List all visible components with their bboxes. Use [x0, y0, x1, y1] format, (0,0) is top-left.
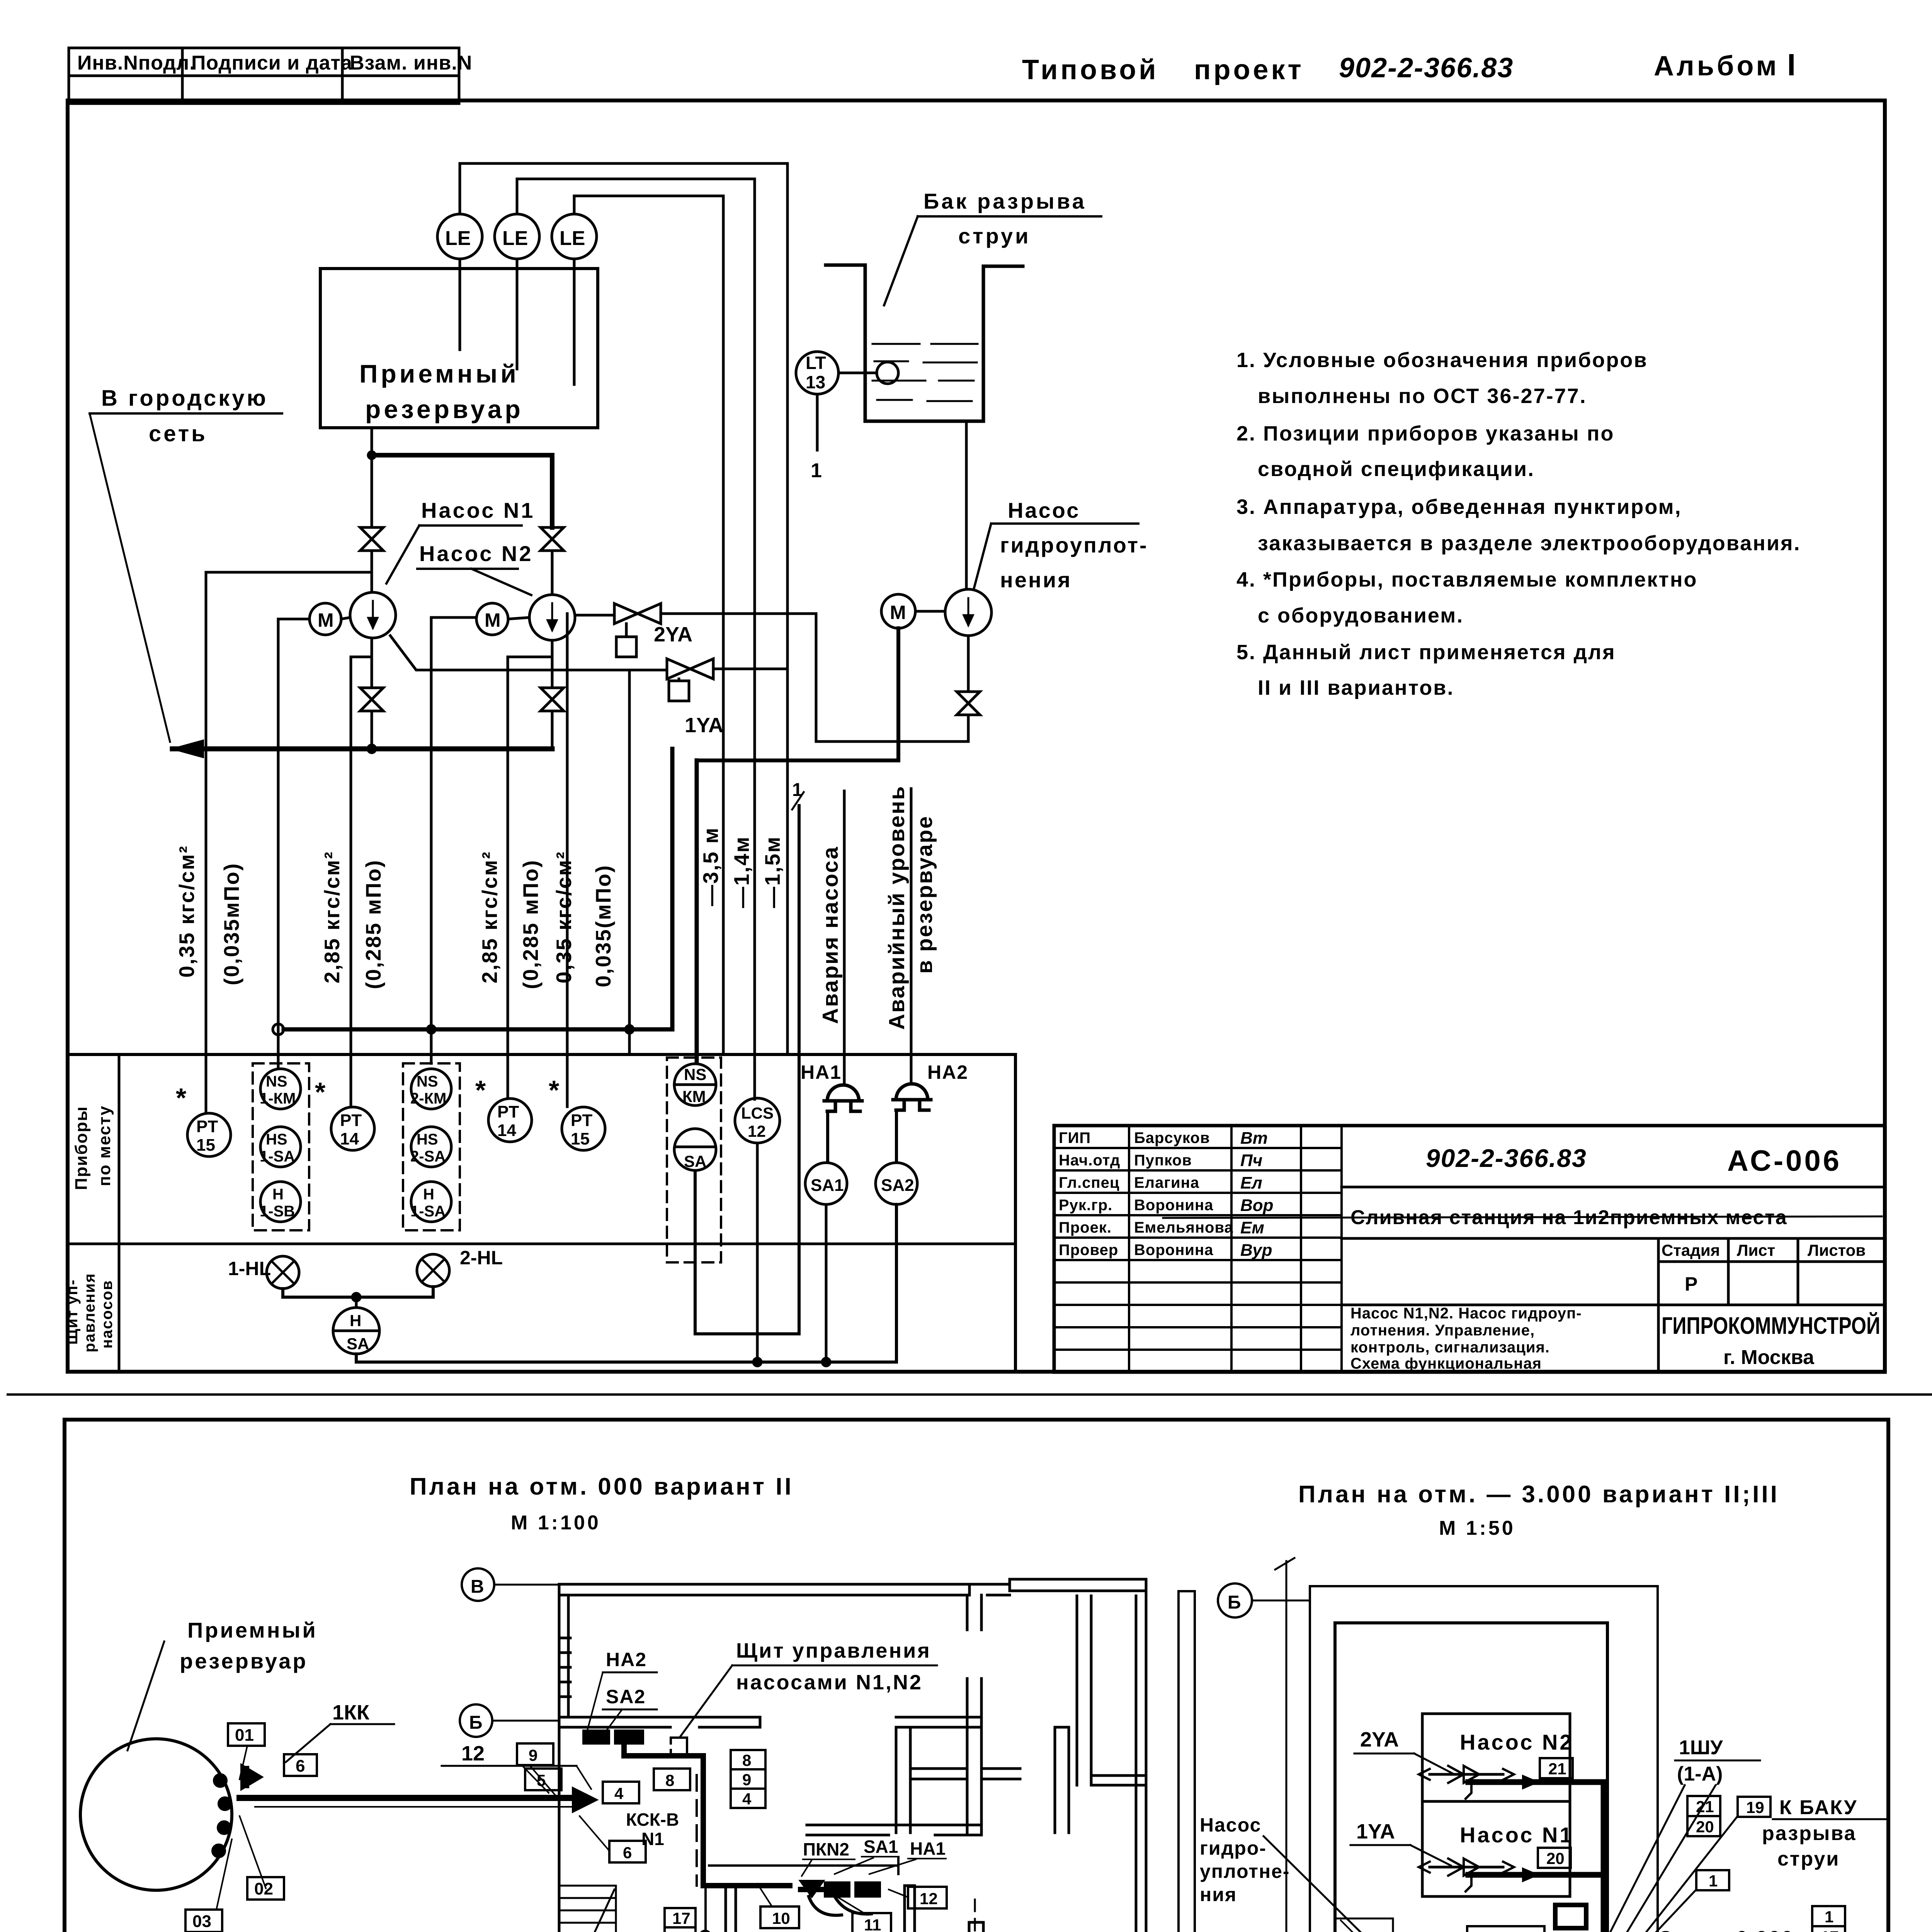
svg-text:по месту: по месту [95, 1105, 114, 1186]
svg-text:Подписи и дата: Подписи и дата [191, 52, 352, 74]
svg-text:*: * [549, 1075, 560, 1105]
dashed drop line [696, 1775, 698, 1886]
pump labels [419, 498, 535, 566]
svg-text:Взам. инв.N: Взам. инв.N [350, 52, 472, 74]
svg-text:LE: LE [502, 227, 528, 250]
svg-text:4. *Приборы, поставляемые ко: 4. *Приборы, поставляемые комплектно [1236, 568, 1697, 591]
svg-text:2,85 кгс/см²: 2,85 кгс/см² [478, 851, 502, 984]
svg-text:Н: Н [350, 1311, 361, 1330]
svg-text:(1-А): (1-А) [1677, 1763, 1723, 1785]
num box 20 [1538, 1848, 1571, 1868]
svg-text:План на отм. 000 вариант II: План на отм. 000 вариант II [410, 1473, 794, 1500]
svg-text:Щит управления: Щит управления [736, 1639, 931, 1662]
title block left grid [1054, 1126, 1342, 1372]
drop junction dot [700, 1931, 711, 1932]
svg-text:КСК-В: КСК-В [626, 1810, 679, 1830]
control panel black bars [583, 1731, 609, 1743]
hydro pump motor M [881, 594, 915, 628]
sheets divider line [8, 1393, 1932, 1396]
instrument SA [674, 1129, 716, 1170]
svg-text:2-КМ: 2-КМ [410, 1090, 446, 1107]
svg-text:Барсуков: Барсуков [1134, 1129, 1210, 1146]
svg-text:SA2: SA2 [881, 1176, 914, 1195]
svg-text:проект: проект [1194, 54, 1304, 85]
motor M1 [310, 603, 341, 635]
num box 8 [654, 1769, 690, 1790]
svg-text:ГИП: ГИП [1059, 1129, 1091, 1146]
drawing description [1350, 1305, 1582, 1372]
signal tap column x1116 [431, 617, 476, 1063]
svg-text:2-HL: 2-HL [460, 1247, 503, 1269]
svg-text:20: 20 [1546, 1849, 1565, 1867]
panel label [736, 1639, 931, 1694]
svg-text:Провер: Провер [1059, 1242, 1118, 1259]
level electrode LE1 [437, 214, 482, 259]
axis circle B -3000 [1218, 1583, 1252, 1617]
svg-text:21: 21 [1548, 1760, 1566, 1778]
svg-text:II и III вариантов.: II и III вариантов. [1258, 676, 1454, 699]
discharge pipes below pumps [371, 638, 373, 688]
sheet 2 frame [65, 1420, 1888, 1932]
svg-text:I: I [1787, 48, 1798, 82]
svg-text:НА2: НА2 [606, 1649, 647, 1670]
svg-text:12: 12 [461, 1742, 485, 1765]
instrument PT14 [331, 1107, 374, 1150]
svg-text:Ел: Ел [1240, 1173, 1262, 1192]
svg-text:Листов: Листов [1808, 1241, 1866, 1259]
svg-text:1: 1 [811, 459, 822, 482]
svg-text:Насос N1: Насос N1 [1460, 1823, 1574, 1847]
hydro pump label [1000, 498, 1148, 592]
discharge valve pump2 [541, 688, 564, 711]
wire LCS12 column [756, 1143, 759, 1362]
signatures [1240, 1129, 1274, 1260]
svg-text:Вур: Вур [1240, 1241, 1272, 1260]
svg-text:с оборудованием.: с оборудованием. [1258, 604, 1464, 627]
svg-text:4: 4 [614, 1784, 624, 1803]
svg-text:г. Москва: г. Москва [1723, 1346, 1815, 1369]
svg-text:(0,285 мПо): (0,285 мПо) [361, 859, 385, 989]
feeder valve into reservoir [241, 1765, 262, 1789]
svg-text:2,85 кгс/см²: 2,85 кгс/см² [320, 851, 344, 984]
level transmitter LT13 [796, 352, 838, 394]
svg-text:1: 1 [1709, 1872, 1718, 1890]
num stack 8 9 4 [731, 1750, 765, 1769]
svg-text:Авария насоса: Авария насоса [818, 846, 843, 1024]
svg-text:17: 17 [672, 1909, 690, 1927]
svg-text:Ем: Ем [1240, 1218, 1264, 1237]
receiving reservoir vessel [320, 269, 598, 428]
alarm line HA2 [910, 789, 913, 1084]
signal tap column x1314 [508, 657, 552, 1098]
svg-text:SA: SA [347, 1335, 369, 1353]
HA2 SA2 labels [606, 1649, 647, 1708]
level electrode LE2 [495, 214, 539, 259]
instrument PT15 second [562, 1107, 605, 1150]
svg-text:*: * [315, 1077, 326, 1107]
svg-text:1YA: 1YA [1356, 1820, 1395, 1843]
svg-text:*: * [475, 1075, 486, 1105]
svg-text:10: 10 [772, 1909, 790, 1927]
svg-text:2-SA: 2-SA [410, 1148, 446, 1165]
motor M wire down [697, 628, 898, 760]
svg-text:11: 11 [864, 1916, 881, 1932]
svg-text:2YA: 2YA [654, 623, 692, 646]
instrument H 1-SA [411, 1182, 451, 1222]
switch H/SA [333, 1308, 379, 1354]
num box 10 [760, 1906, 799, 1928]
reservoir label [180, 1618, 318, 1673]
KCK-B N1 label [626, 1810, 679, 1849]
fitting bars SA1 HA1 [825, 1883, 849, 1896]
num box 11 [852, 1913, 891, 1932]
svg-text:1: 1 [676, 1929, 685, 1932]
discharge valve pump1 [360, 688, 383, 711]
svg-text:9: 9 [529, 1746, 537, 1764]
top-right parapet [969, 1584, 1010, 1595]
wire from H/SA to SA columns [356, 1204, 896, 1362]
svg-text:В: В [471, 1577, 484, 1597]
svg-text:Инв.Nподл.: Инв.Nподл. [77, 52, 196, 74]
svg-text:НА1: НА1 [801, 1061, 842, 1083]
svg-text:15: 15 [196, 1136, 215, 1155]
svg-text:Рук.гр.: Рук.гр. [1059, 1197, 1112, 1214]
svg-text:М: М [485, 609, 501, 631]
svg-text:ГИПРОКОММУНСТРОЙ: ГИПРОКОММУНСТРОЙ [1662, 1312, 1880, 1339]
lamp 1-HL [267, 1256, 299, 1289]
building II outer walls [559, 1579, 1146, 1932]
asterisks [176, 1075, 560, 1113]
alarm line HA1 [843, 791, 846, 1085]
svg-text:Насос: Насос [1200, 1814, 1261, 1836]
thick pipe reservoir to building [240, 1795, 583, 1801]
tank water hatching [872, 344, 978, 401]
svg-text:резервуар: резервуар [180, 1649, 308, 1673]
svg-text:—1,5м: —1,5м [760, 836, 784, 908]
svg-text:19: 19 [1746, 1798, 1764, 1816]
top title [1022, 48, 1798, 85]
common bus at y2664 [273, 1024, 284, 1035]
svg-text:В городскую: В городскую [101, 386, 268, 411]
svg-text:Воронина: Воронина [1134, 1197, 1213, 1214]
svg-text:лотнения. Управление,: лотнения. Управление, [1350, 1322, 1535, 1339]
svg-text:струи: струи [1777, 1848, 1840, 1870]
wire LE1 to column x2038 [460, 163, 787, 1054]
hydro seal pump [945, 589, 992, 636]
svg-text:струи: струи [958, 224, 1031, 248]
hydro pump discharge valve [967, 636, 970, 692]
svg-text:HS: HS [417, 1131, 438, 1148]
rail above fittings [709, 1857, 898, 1874]
svg-text:13: 13 [806, 372, 825, 392]
to city network label [101, 386, 268, 446]
svg-text:нения: нения [1000, 568, 1072, 592]
signal tap column x1468 [566, 614, 569, 1107]
title block sheet1 outer [1054, 1126, 1885, 1372]
svg-text:Приемный: Приемный [359, 359, 519, 388]
receiving reservoir plan circle [80, 1739, 232, 1890]
svg-text:насосов: насосов [99, 1280, 116, 1349]
num box 5 [525, 1769, 561, 1790]
dashed box 2 [403, 1063, 460, 1230]
svg-text:8: 8 [665, 1771, 674, 1789]
svg-text:НА2: НА2 [927, 1061, 968, 1083]
right wall [1136, 1596, 1146, 1932]
svg-text:ния: ния [1200, 1884, 1237, 1905]
svg-text:902-2-366.83: 902-2-366.83 [1339, 53, 1514, 83]
instrument NS 2-KM [411, 1069, 451, 1109]
svg-text:H: H [423, 1186, 434, 1203]
tank label [923, 189, 1087, 248]
instrument PT15 [187, 1113, 231, 1156]
box 01 [228, 1723, 265, 1746]
svg-text:Б: Б [1228, 1592, 1241, 1613]
svg-text:Насос N1: Насос N1 [421, 498, 535, 522]
svg-text:разрыва: разрыва [1762, 1822, 1857, 1845]
svg-text:Аварийный уровень: Аварийный уровень [884, 785, 909, 1030]
num box 1 [1696, 1870, 1729, 1890]
pump 2 [529, 595, 575, 640]
B axis interior wall [559, 1717, 760, 1727]
box 02 [247, 1877, 284, 1900]
num box 4 [603, 1782, 639, 1803]
svg-text:902-2-366.83: 902-2-366.83 [1426, 1144, 1587, 1172]
instrument strip table [68, 1054, 1015, 1372]
thick pipe from 2YA [1468, 1782, 1604, 1932]
opening rect [1467, 1926, 1544, 1932]
axis circle B [462, 1568, 494, 1601]
svg-text:14: 14 [340, 1129, 359, 1148]
lamp wires to common [283, 1287, 433, 1297]
svg-text:(0,285 мПо): (0,285 мПо) [519, 859, 543, 989]
svg-text:12: 12 [920, 1889, 938, 1908]
left wall double with window [559, 1584, 568, 1932]
svg-text:Насос N2: Насос N2 [419, 541, 533, 566]
branch line with 1YA [390, 636, 667, 670]
svg-text:1: 1 [792, 780, 803, 800]
instrument LCS12 [735, 1098, 780, 1143]
svg-text:1YA: 1YA [685, 714, 723, 737]
jet-break tank [826, 265, 1023, 421]
cable loops below [809, 1896, 871, 1915]
-3.000 building outer [1310, 1586, 1658, 1932]
svg-text:0,35 кгс/см²: 0,35 кгс/см² [175, 845, 199, 978]
svg-text:PT: PT [571, 1111, 592, 1130]
svg-text:1-КМ: 1-КМ [260, 1090, 296, 1107]
svg-text:H: H [272, 1186, 284, 1203]
svg-text:контроль, сигнализация.: контроль, сигнализация. [1350, 1339, 1550, 1356]
svg-text:(0,035мПо): (0,035мПо) [219, 862, 243, 985]
num stack 17 1 [665, 1908, 696, 1927]
svg-text:Емельянова: Емельянова [1134, 1219, 1233, 1236]
suction valve pump1 [360, 527, 383, 551]
thick header rise from strip [695, 760, 699, 1061]
electrode rods into reservoir [459, 259, 461, 350]
solenoid valve 1YA [667, 659, 713, 679]
stage row [1657, 1238, 1660, 1305]
svg-text:Альбом: Альбом [1654, 51, 1779, 82]
num box 9 [517, 1743, 553, 1765]
signal tap column x720 [278, 619, 310, 1069]
title block roles and names [1059, 1129, 1233, 1259]
svg-text:5. Данный лист применяется: 5. Данный лист применяется для [1236, 641, 1616, 664]
svg-text:уплотне-: уплотне- [1200, 1861, 1290, 1882]
duty room walls [726, 1886, 736, 1932]
svg-text:3. Аппаратура, обведенная пун: 3. Аппаратура, обведенная пунктиром, [1236, 495, 1682, 519]
svg-text:—3,5 м: —3,5 м [699, 827, 723, 906]
plan II title [410, 1473, 794, 1534]
svg-text:PT: PT [497, 1102, 519, 1121]
svg-text:SA: SA [684, 1152, 706, 1170]
sheet 1 frame [68, 100, 1885, 1372]
svg-text:Проек.: Проек. [1059, 1219, 1112, 1236]
wire LE3 to column x1872 [574, 196, 723, 1054]
svg-text:Гл.спец: Гл.спец [1059, 1174, 1119, 1191]
instrument HS 1-SA [260, 1127, 301, 1167]
level electrode LE3 [552, 214, 597, 259]
2YA valve on pipe [1430, 1773, 1503, 1776]
svg-text:Воронина: Воронина [1134, 1242, 1213, 1259]
svg-text:Пупков: Пупков [1134, 1152, 1192, 1169]
hydro seal loop pipe [661, 614, 968, 742]
svg-text:выполнены по ОСТ 36-27-77.: выполнены по ОСТ 36-27-77. [1258, 384, 1587, 408]
svg-text:1ШУ: 1ШУ [1679, 1736, 1723, 1759]
svg-text:насосами N1,N2: насосами N1,N2 [736, 1671, 923, 1694]
svg-text:Р: Р [1685, 1273, 1697, 1295]
svg-text:12: 12 [748, 1122, 766, 1140]
svg-text:PT: PT [340, 1111, 362, 1130]
svg-text:LE: LE [445, 227, 471, 250]
panel outline symbol [671, 1738, 687, 1756]
float ball [877, 362, 898, 384]
svg-text:1: 1 [1825, 1908, 1833, 1926]
19 K BAKU label [1738, 1797, 1770, 1817]
wire LE2 to column x1953 [517, 179, 755, 1099]
svg-text:9: 9 [742, 1770, 751, 1789]
signal tap column x533 [206, 572, 372, 1113]
pump N2 box [1422, 1714, 1570, 1801]
svg-text:SA1: SA1 [811, 1176, 844, 1195]
svg-text:1-SB: 1-SB [260, 1203, 295, 1220]
svg-text:План на отм. — 3.000 вариант: План на отм. — 3.000 вариант II;III [1298, 1481, 1779, 1508]
svg-text:SA2: SA2 [606, 1686, 646, 1708]
svg-text:равления: равления [81, 1273, 98, 1352]
svg-text:АС-006: АС-006 [1727, 1145, 1842, 1177]
svg-text:21: 21 [1696, 1798, 1714, 1816]
svg-text:4: 4 [742, 1790, 752, 1808]
svg-text:Бак разрыва: Бак разрыва [923, 189, 1087, 213]
dashed box 1 [253, 1063, 309, 1230]
svg-text:М: М [890, 602, 906, 623]
svg-text:резервуар: резервуар [365, 395, 524, 423]
top wall double [559, 1584, 969, 1595]
svg-text:М 1:50: М 1:50 [1439, 1517, 1515, 1539]
selector SA1 [805, 1163, 847, 1204]
svg-text:1-HL: 1-HL [228, 1258, 271, 1279]
svg-text:гидроуплот-: гидроуплот- [1000, 533, 1148, 557]
svg-text:—1,4м: —1,4м [730, 836, 753, 908]
svg-text:Пч: Пч [1240, 1151, 1262, 1170]
thick cable from panel [624, 1743, 790, 1886]
svg-text:гидро-: гидро- [1200, 1837, 1267, 1859]
svg-text:14: 14 [497, 1121, 516, 1140]
svg-text:сеть: сеть [149, 421, 207, 446]
PKN2 SA1 HA1 labels [803, 1837, 946, 1859]
selector SA2 [876, 1163, 917, 1204]
bottom pier [969, 1922, 983, 1932]
interior vertical walls [967, 1595, 981, 1630]
svg-text:2. Позиции приборов указаны: 2. Позиции приборов указаны по [1236, 422, 1614, 445]
corner stamp text [77, 52, 472, 74]
box 03 [185, 1910, 222, 1932]
svg-text:Стадия: Стадия [1662, 1241, 1720, 1259]
svg-text:03: 03 [192, 1912, 211, 1931]
svg-text:LE: LE [560, 227, 585, 250]
instrument NS 1-KM [260, 1069, 301, 1109]
svg-text:НА1: НА1 [910, 1838, 946, 1859]
electrode dots on reservoir [214, 1774, 226, 1787]
svg-text:NS: NS [684, 1065, 706, 1083]
svg-text:М 1:100: М 1:100 [511, 1512, 601, 1534]
svg-text:6: 6 [296, 1757, 305, 1776]
cable fitting PKN2 black triangle [801, 1881, 823, 1896]
svg-text:15: 15 [571, 1129, 590, 1148]
svg-text:1-SA: 1-SA [410, 1203, 446, 1220]
signal tap column x908 [351, 657, 372, 1107]
1YA valve on pipe [1430, 1866, 1503, 1869]
svg-text:1. Условные обозначения приб: 1. Условные обозначения приборов [1236, 349, 1648, 372]
plan -3.000 title [1298, 1481, 1779, 1539]
pump 1 [350, 592, 396, 638]
leader lines from boxes to reservoir [216, 1746, 266, 1910]
thick pipe from 1YA [1468, 1872, 1604, 1878]
instrument HS 2-SA [411, 1127, 451, 1167]
svg-text:01: 01 [235, 1726, 254, 1745]
svg-text:PT: PT [196, 1117, 218, 1136]
KCK-B N1 triangle at pipe end [573, 1788, 596, 1811]
svg-text:Схема функциональная: Схема функциональная [1350, 1355, 1542, 1372]
svg-text:17: 17 [1821, 1928, 1839, 1932]
svg-text:Елагина: Елагина [1134, 1174, 1199, 1191]
far right wall strip [1179, 1591, 1195, 1932]
svg-text:Лист: Лист [1737, 1241, 1775, 1259]
num box 12b [908, 1887, 947, 1908]
svg-text:0,35 кгс/см²: 0,35 кгс/см² [552, 851, 576, 984]
svg-text:в резервуаре: в резервуаре [912, 815, 937, 974]
notes sheet 1 [1236, 349, 1801, 699]
num stack 21 20 [1687, 1796, 1720, 1816]
svg-text:Щит уп-: Щит уп- [64, 1279, 81, 1345]
num box 21 [1540, 1758, 1573, 1778]
stairs plan II [559, 1886, 616, 1932]
svg-text:Нач.отд: Нач.отд [1059, 1152, 1120, 1169]
axis circle B2 [460, 1704, 492, 1737]
svg-text:КМ: КМ [682, 1087, 706, 1105]
box 6 [284, 1754, 317, 1776]
pipe tank to hydro pump [965, 421, 968, 589]
svg-text:8: 8 [742, 1751, 751, 1769]
pump2 to 2YA wire [575, 614, 614, 617]
svg-text:сводной спецификации.: сводной спецификации. [1258, 457, 1535, 481]
svg-text:С отм. 0.000: С отм. 0.000 [1658, 1927, 1794, 1932]
suction valve pump2 [541, 527, 564, 551]
1ShU label [1677, 1736, 1723, 1785]
svg-text:Б: Б [469, 1713, 483, 1733]
-3.000 plan axis line [1286, 1561, 1287, 1932]
svg-text:1-SA: 1-SA [260, 1148, 295, 1165]
svg-text:К БАКУ: К БАКУ [1779, 1796, 1858, 1819]
svg-text:HS: HS [266, 1131, 287, 1148]
